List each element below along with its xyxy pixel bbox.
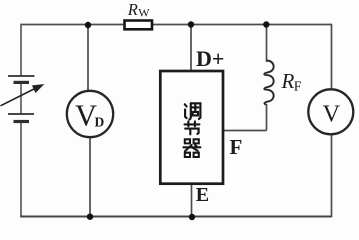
wire VD branch lower: [89, 138, 91, 217]
wire regulator branch upper: [190, 25, 192, 71]
wire left vertical upper: [20, 24, 22, 76]
regulator text 调: [185, 103, 201, 119]
wire top-left segment: [21, 24, 124, 26]
resistor RW body: [125, 21, 153, 30]
svg-text:R: R: [281, 69, 295, 93]
regulator text 器: [183, 139, 200, 157]
voltmeter VD circle: [67, 91, 113, 137]
svg-text:E: E: [196, 184, 209, 206]
wire bottom segment: [20, 216, 331, 218]
regulator box U1: [160, 71, 223, 184]
wire battery mid segment: [20, 83, 22, 114]
svg-text:F: F: [230, 135, 243, 159]
voltmeter V2 circle: [308, 89, 353, 134]
junction node top C: [263, 21, 269, 27]
wire inductor riser: [266, 104, 268, 131]
junction node top B: [188, 21, 194, 27]
wire right vertical upper: [331, 24, 333, 89]
wire regulator branch lower: [191, 185, 193, 218]
inductor RF coil: [264, 61, 273, 105]
junction node top A: [85, 22, 91, 28]
regulator text 节: [185, 121, 200, 134]
wire left vertical lower: [20, 122, 22, 217]
junction node bottom E: [189, 214, 195, 220]
wire inductor branch top: [266, 25, 268, 63]
svg-text:R: R: [127, 0, 138, 19]
wire right vertical lower: [331, 135, 333, 218]
battery B1 plates: [8, 76, 35, 122]
wire VD branch upper: [87, 25, 89, 91]
svg-text:V: V: [323, 101, 341, 128]
wire F horizontal: [224, 130, 267, 132]
svg-text:D: D: [95, 115, 105, 130]
svg-text:F: F: [294, 80, 302, 95]
wire top-mid-right segment: [153, 24, 332, 26]
junction node bottom D: [87, 214, 93, 220]
battery variable arrow: [1, 84, 44, 106]
svg-text:D+: D+: [196, 46, 224, 71]
svg-text:W: W: [138, 6, 150, 20]
